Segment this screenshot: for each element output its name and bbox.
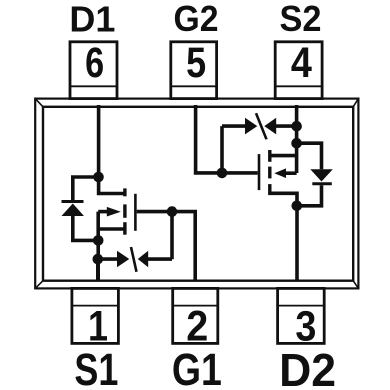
zener Z2 right triangle bbox=[264, 118, 276, 135]
wire pin4 to Q2 source bbox=[295, 105, 299, 173]
body diode of Q1 cathode bar bbox=[62, 200, 84, 203]
wire zener Z1 left lead bbox=[98, 257, 119, 261]
svg-text:S1: S1 bbox=[74, 344, 118, 390]
zener Z1 slanted bar bbox=[131, 247, 137, 272]
svg-text:4: 4 bbox=[291, 39, 312, 87]
package outline outer bbox=[35, 99, 358, 289]
transistor Q2 body arrow bbox=[274, 168, 286, 178]
zener Z1 left triangle bbox=[117, 251, 129, 268]
wire Q1 drain node to body diode bbox=[73, 177, 99, 202]
package outline inner bbox=[43, 107, 353, 281]
wire body diode cathode down to drain node bbox=[297, 185, 322, 206]
transistor Q1 body arrow bbox=[107, 207, 121, 217]
junction dot Q2 source/zener bbox=[291, 121, 302, 132]
wire pin5 to Q2 gate bbox=[196, 105, 258, 173]
svg-text:G2: G2 bbox=[174, 0, 219, 39]
transistor Q1 gate bar bbox=[134, 194, 137, 231]
pin 2 box bbox=[173, 288, 218, 343]
junction dot Q1 drain/diode bbox=[93, 172, 104, 183]
wire pin6 to Q1 drain bbox=[99, 105, 125, 194]
wire Q2 gate node up to zener Z2 bbox=[220, 126, 224, 173]
wire pin1 stem bbox=[96, 259, 100, 281]
pin 3 box divider bbox=[278, 305, 325, 307]
pin 3 box bbox=[278, 288, 325, 343]
pin 2 box divider bbox=[173, 305, 218, 307]
wire Q2 drain stub to pin3 bbox=[271, 193, 297, 280]
wire Q2 source stub bbox=[271, 154, 297, 158]
svg-text:S2: S2 bbox=[280, 0, 322, 39]
pin 5 box bbox=[171, 42, 217, 99]
transistor Q2 gate bar bbox=[258, 154, 261, 190]
package corner bevel top-right bbox=[353, 99, 358, 107]
wire Q1 source stub bbox=[98, 227, 125, 231]
junction dot Q2 source/diode bbox=[291, 138, 302, 149]
junction dot Q2 drain/diode bbox=[292, 201, 303, 212]
transistor Q1 channel bar segments bbox=[123, 188, 126, 234]
body diode of Q1 triangle bbox=[62, 204, 85, 217]
pin 1 box divider bbox=[72, 305, 119, 307]
body diode of Q2 triangle bbox=[310, 169, 333, 181]
pin 5 box divider bbox=[171, 85, 217, 87]
svg-text:5: 5 bbox=[186, 39, 206, 87]
svg-text:D2: D2 bbox=[279, 344, 336, 390]
junction dot Q1 source/diode bbox=[93, 235, 104, 246]
wire zener Z2 left lead bbox=[222, 124, 246, 128]
svg-text:D1: D1 bbox=[69, 0, 115, 39]
pin 6 box divider bbox=[70, 85, 117, 87]
zener Z2 slanted bar bbox=[256, 113, 267, 139]
wire Q1 gate to node bbox=[137, 212, 196, 281]
pin 1 box bbox=[72, 288, 119, 343]
junction dot Q1 source/zener bbox=[93, 254, 104, 265]
wire Q2 body stub bbox=[284, 171, 297, 175]
junction dot Q1 gate bbox=[167, 206, 178, 217]
wire zener Z2 right lead bbox=[276, 124, 297, 128]
svg-text:G1: G1 bbox=[172, 344, 222, 390]
transistor Q2 channel bar segments bbox=[268, 150, 271, 195]
wire Q1 body stub bbox=[98, 210, 108, 214]
wire gate node down to zener Z1 bbox=[170, 212, 174, 260]
wire zener Z1 right lead bbox=[148, 257, 172, 261]
junction dot Q2 gate/zener bbox=[217, 168, 228, 179]
svg-text:6: 6 bbox=[85, 39, 104, 87]
package corner bevel bottom-right bbox=[353, 281, 358, 289]
package corner bevel top-left bbox=[35, 99, 43, 107]
wire Q2 source node to body diode bbox=[297, 143, 322, 169]
package corner bevel bottom-left bbox=[35, 281, 43, 289]
wire Q1 source vertical to pin1 bbox=[96, 212, 100, 281]
zener Z1 right triangle bbox=[138, 251, 148, 268]
pin 4 box bbox=[275, 42, 322, 99]
zener Z2 left triangle bbox=[245, 118, 257, 135]
pin 4 box divider bbox=[275, 85, 322, 87]
wire body diode anode down to source node bbox=[73, 215, 98, 241]
pin 6 box bbox=[70, 42, 117, 99]
body diode of Q2 cathode bar bbox=[312, 182, 332, 185]
